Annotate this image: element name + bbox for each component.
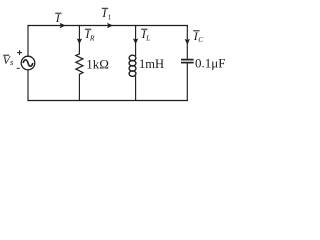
source plus sign bbox=[17, 50, 22, 55]
label I bbox=[55, 11, 62, 25]
wire inductor branch upper bbox=[135, 26, 137, 56]
arrow current I1 on top wire bbox=[107, 23, 113, 28]
wire top bbox=[28, 25, 187, 27]
wire right upper bbox=[186, 26, 188, 60]
source V_S sine bbox=[23, 60, 33, 66]
arrow current I on top wire bbox=[60, 23, 66, 28]
svg-text:L: L bbox=[145, 34, 150, 43]
capacitor C 0.1uF bbox=[181, 60, 194, 63]
wire left lower bbox=[27, 70, 29, 101]
wire left upper bbox=[27, 26, 29, 57]
label V_S bbox=[3, 55, 14, 67]
svg-text:R: R bbox=[89, 34, 95, 43]
arrow current IL on inductor branch bbox=[133, 38, 138, 44]
svg-text:1: 1 bbox=[108, 12, 112, 21]
resistor R 1kOhm bbox=[76, 54, 83, 75]
wire bottom bbox=[28, 100, 187, 102]
label I1 bbox=[101, 6, 111, 21]
arrow current IC on capacitor branch bbox=[185, 39, 190, 45]
label IR bbox=[85, 27, 95, 43]
label IL bbox=[141, 27, 151, 43]
svg-text:1mH: 1mH bbox=[139, 57, 164, 71]
wire resistor branch upper bbox=[78, 26, 80, 54]
wire inductor branch lower bbox=[135, 76, 137, 100]
svg-text:1kΩ: 1kΩ bbox=[86, 57, 109, 72]
label IC bbox=[193, 29, 204, 44]
wire resistor branch lower bbox=[78, 74, 80, 100]
source V_S circle bbox=[21, 56, 35, 70]
svg-text:0.1μF: 0.1μF bbox=[195, 56, 225, 71]
wire right lower bbox=[186, 63, 188, 100]
source minus sign bbox=[17, 67, 20, 69]
inductor L 1mH bbox=[129, 55, 136, 76]
arrow current IR on resistor branch bbox=[77, 38, 82, 44]
